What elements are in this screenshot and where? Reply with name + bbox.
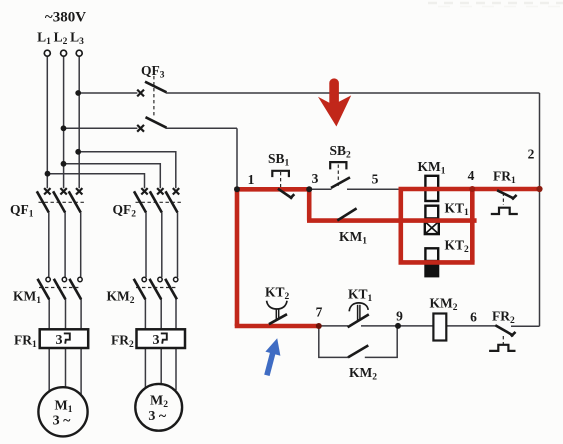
svg-text:5: 5 [372,172,379,187]
svg-text:4: 4 [468,168,475,183]
svg-text:1: 1 [248,172,255,187]
svg-text:~380V: ~380V [45,10,86,26]
svg-text:6: 6 [470,310,477,325]
svg-text:3: 3 [312,171,319,186]
svg-text:7: 7 [316,305,323,320]
svg-text:3 ~: 3 ~ [148,409,167,424]
svg-text:9: 9 [396,309,403,324]
svg-text:3: 3 [153,333,160,348]
svg-text:3 ~: 3 ~ [53,414,72,429]
svg-text:2: 2 [528,147,535,162]
svg-text:3: 3 [56,333,63,348]
